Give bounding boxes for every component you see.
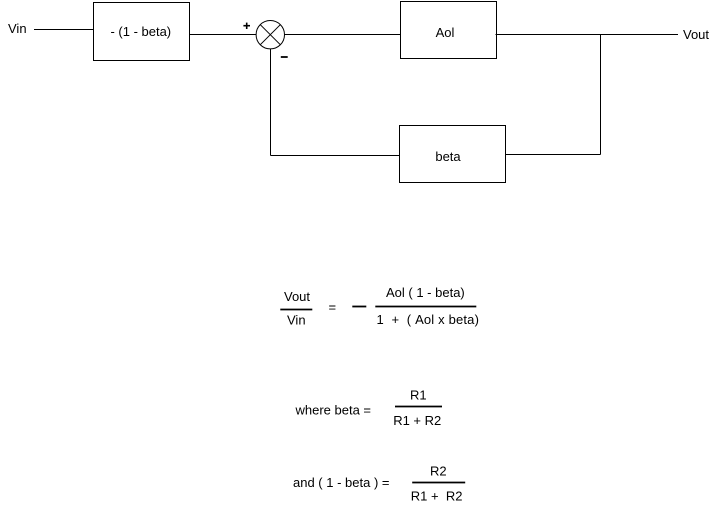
svg-text:where beta =: where beta = [295, 403, 372, 418]
svg-text:1 + ( Aol x beta): 1 + ( Aol x beta) [377, 312, 480, 327]
formula 3 label: and ( 1 - beta ) = [293, 475, 389, 490]
svg-text:Vin: Vin [287, 313, 306, 328]
svg-text:Aol: Aol [436, 25, 455, 40]
wire summing junction to Aol block [285, 34, 400, 36]
plus sign at summing junction input [243, 23, 250, 29]
value label "- (1 - beta)" [110, 24, 171, 39]
value label "Aol" [436, 25, 455, 40]
formula 1 numerator-left: Vout [284, 289, 310, 304]
wire gain block to summing junction [190, 34, 257, 36]
svg-text:Vout: Vout [284, 289, 310, 304]
formula 1 equals sign [329, 300, 337, 315]
svg-text:and ( 1 - beta ) =: and ( 1 - beta ) = [293, 475, 389, 490]
node Vout (output label) [683, 27, 709, 42]
formula 1 denominator-left: Vin [287, 313, 306, 328]
wire left vertical up to summing junction [270, 49, 272, 156]
wire Aol block to output Vout [496, 34, 679, 36]
svg-text:Aol ( 1 - beta): Aol ( 1 - beta) [386, 285, 465, 300]
wire beta block to left vertical [271, 155, 400, 157]
node Vin (input label) [8, 21, 27, 36]
formula 2 label: where beta = [295, 403, 372, 418]
svg-text:beta: beta [435, 149, 461, 164]
feedback block B2 beta [400, 126, 506, 183]
svg-text:R2: R2 [430, 464, 447, 479]
wire right vertical to beta block [506, 154, 601, 156]
wire output node down to feedback (right vertical) [600, 35, 602, 155]
formula 1 numerator-right: Aol ( 1 - beta) [386, 285, 465, 300]
formula 2 fraction bar [395, 406, 442, 408]
formula 1 negative sign (long dash) [352, 306, 366, 308]
svg-text:Vin: Vin [8, 21, 27, 36]
svg-text:- (1 - beta): - (1 - beta) [110, 24, 171, 39]
formula 2 denominator: R1 + R2 [393, 413, 441, 428]
formula 1 fraction bar right [375, 306, 476, 308]
formula 2 numerator: R1 [410, 388, 427, 403]
formula 3 fraction bar [412, 482, 465, 484]
formula 3 numerator: R2 [430, 464, 447, 479]
formula 1 fraction bar left [280, 309, 312, 311]
value label "beta" [435, 149, 461, 164]
svg-text:=: = [329, 300, 337, 315]
svg-text:R1: R1 [410, 388, 427, 403]
formula 3 denominator: R1 + R2 [411, 489, 463, 504]
wire Vin to gain block [34, 29, 94, 31]
svg-text:R1 + R2: R1 + R2 [411, 489, 463, 504]
summing junction S1 (circle with X) [256, 21, 284, 49]
gain block U1 Aol [401, 2, 497, 59]
formula 1 denominator-right: 1 + ( Aol x beta) [377, 312, 480, 327]
minus sign at summing junction feedback input [281, 56, 288, 58]
svg-text:Vout: Vout [683, 27, 709, 42]
svg-text:R1 + R2: R1 + R2 [393, 413, 441, 428]
gain block B1 "- (1 - beta)" [94, 3, 190, 61]
